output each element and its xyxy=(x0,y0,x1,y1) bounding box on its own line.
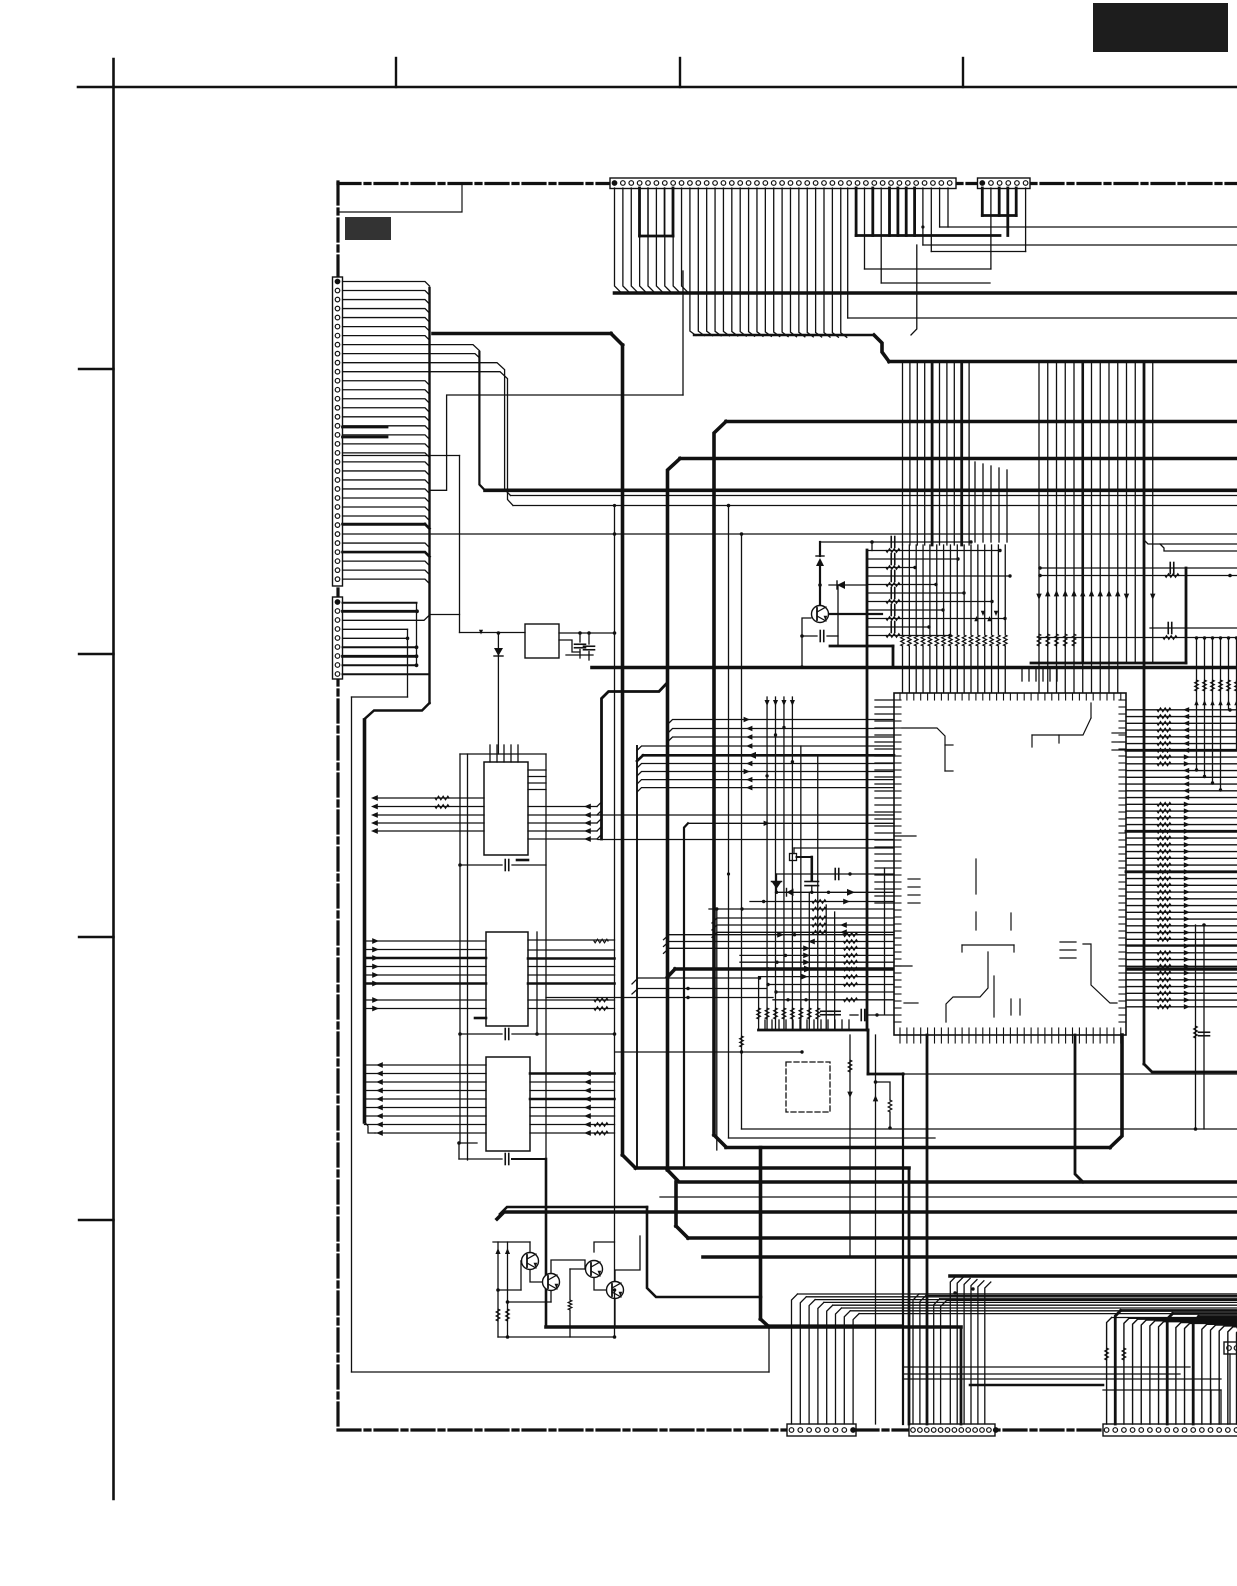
shield box left rail2 xyxy=(467,754,469,1160)
title block (solid) xyxy=(345,217,391,240)
IC U2 right row wires xyxy=(528,802,602,842)
bus wire thick y=235.5 xyxy=(856,234,1000,237)
stub rows left of U10 xyxy=(875,700,894,903)
bus drop to CN bottom-2 xyxy=(908,1168,911,1424)
left border tick 3 xyxy=(79,936,114,938)
signal arrows xyxy=(974,611,998,621)
IC U3 right row wires xyxy=(528,940,615,1009)
IC U2 top-right stubs xyxy=(528,770,546,790)
rail x=416.5 xyxy=(416,603,418,666)
bus wire (thick) y=1238 xyxy=(676,1182,1237,1238)
wire thick CN2 p1 xyxy=(981,188,984,216)
fan riser x=637 xyxy=(636,746,638,1168)
IC U10 internal g xyxy=(894,836,920,1003)
wire thick drop p30 xyxy=(855,188,858,236)
link rows xyxy=(546,976,773,999)
signal wire y=251.5 xyxy=(931,251,1025,253)
wire drop p40 xyxy=(939,188,941,227)
transistor Q4 xyxy=(607,1282,624,1299)
row junctions right xyxy=(1195,708,1232,791)
rail y=1379 xyxy=(903,1378,1221,1380)
wire pin11 xyxy=(343,372,514,506)
IC U10 internal c xyxy=(1112,733,1126,750)
resistor R (u3c) xyxy=(594,1007,608,1011)
wire x=728 xyxy=(728,506,730,1139)
wire x=742 xyxy=(740,532,744,1129)
bus wire thick x=927 xyxy=(926,1035,929,1424)
wire q cluster link xyxy=(498,1335,616,1339)
wire columns into IC top + resistor row xyxy=(901,545,1007,693)
aux wire2 xyxy=(1103,1390,1221,1424)
row y=984.5 xyxy=(766,983,894,987)
wire thick row y=524 xyxy=(343,524,430,529)
wire L2 pin9 xyxy=(343,673,430,675)
wire jog xyxy=(459,1143,477,1159)
wire to regulator xyxy=(460,632,526,634)
left border tick 2 xyxy=(79,653,114,655)
bus corner x=666 xyxy=(668,459,681,1171)
wire drop p38 xyxy=(922,188,924,245)
signal wire y=534 xyxy=(343,533,1237,535)
wire thick drop xyxy=(819,542,821,556)
capacitor C (reg1) xyxy=(575,633,586,658)
bus wire thick x=546 low xyxy=(545,1159,548,1327)
transistor Q1 xyxy=(522,1253,539,1270)
bus wire thick x=1144 xyxy=(1144,362,1237,1073)
wire q-rail a xyxy=(495,1242,500,1337)
bus wire (thick) x=364.5 xyxy=(363,720,367,1122)
bus wire y=335 xyxy=(694,334,874,336)
bus wire (thick) y=333.5 xyxy=(433,332,611,336)
row wires right of U10 xyxy=(1126,707,1237,1009)
bus wire thick y=215.5 xyxy=(982,214,1016,217)
loop wire xyxy=(876,1082,892,1130)
rail x=351.5 xyxy=(351,697,353,1372)
signal arrow xyxy=(479,630,483,635)
signal wire y=1367 xyxy=(903,1366,1190,1368)
signal wire y=283 xyxy=(881,282,990,284)
top border tick 3 xyxy=(962,58,964,87)
bus wire thick x=647 xyxy=(647,1207,761,1297)
wire q2 emit xyxy=(508,1291,552,1302)
wire bus merge CN left-1 tail xyxy=(343,543,430,584)
connector CN aux 2-pin xyxy=(1224,1342,1237,1354)
wire L2 pin5 xyxy=(343,637,410,641)
IC U10 internal f xyxy=(994,976,1020,1017)
board frame top edge xyxy=(338,182,1237,185)
bus corner x712 low xyxy=(714,1135,726,1147)
junction xyxy=(818,583,822,587)
wire reg out2 xyxy=(580,631,616,635)
signal wire y=505.5 xyxy=(513,505,1237,507)
resistor R (u2a) xyxy=(435,796,449,800)
signal wire y=495.5 xyxy=(511,495,1237,497)
bus wire thick x=867 xyxy=(866,550,869,1030)
wire L2 pin6 xyxy=(343,645,419,649)
page number block (solid) xyxy=(1093,3,1228,52)
wire pin9 xyxy=(343,354,480,358)
bus wire (thick) y=421.5 xyxy=(726,420,1237,424)
IC U3 bottom stub xyxy=(475,1017,486,1020)
wire drop p31 xyxy=(864,188,866,269)
diode row y=892 xyxy=(777,889,895,897)
crystal X1 wire xyxy=(794,848,894,854)
bus drop x=961 xyxy=(960,1327,963,1424)
wire tail xyxy=(365,1122,487,1136)
wire x=875 arrow xyxy=(873,1035,878,1424)
connector CN bottom-2 xyxy=(909,1424,998,1436)
resistor R (u2b) xyxy=(435,805,449,809)
wire top rail xyxy=(820,540,874,550)
wire q-top xyxy=(493,1241,530,1243)
capacitor C (shield2) xyxy=(460,1029,546,1040)
wire q4 coll xyxy=(615,1236,640,1281)
resistor R (b3a) xyxy=(1105,1348,1109,1360)
shield box right rail xyxy=(545,754,547,1159)
row fan off x=667 xyxy=(668,717,894,742)
bus wire (thick) y=1212 xyxy=(497,1212,1237,1219)
CN bottom-2 risers right xyxy=(950,1276,991,1424)
bus wire (thick) y=1147.5 xyxy=(726,1146,1110,1150)
IC U10 bottom pin ticks xyxy=(900,1028,1121,1043)
board frame bottom edge xyxy=(338,1428,1237,1431)
IC U3 (box) xyxy=(486,932,528,1026)
wire q1 coll xyxy=(529,1242,531,1253)
diode D3 xyxy=(829,581,867,589)
bus wire thick step xyxy=(874,335,889,362)
board frame left edge xyxy=(336,182,339,1430)
bus wire (thick) y=1168 xyxy=(636,1166,910,1170)
wire columns under y=458 xyxy=(975,462,1007,542)
IC U10 right pin ticks xyxy=(1119,700,1126,1022)
wire x=850 arrow xyxy=(847,1035,852,1257)
zener diode D2 xyxy=(816,556,824,605)
bus corner low xyxy=(623,1155,636,1168)
pin ticks on y=1030 xyxy=(765,1020,849,1030)
wire drop p39 xyxy=(930,188,932,252)
wire L2 pin3 xyxy=(343,615,460,621)
CN bottom-3 risers xyxy=(1107,1311,1237,1425)
connector CN left-2 xyxy=(333,597,343,679)
wire x=615 vertical xyxy=(613,504,616,1290)
row y=992 xyxy=(774,990,894,993)
signal wire y=318 xyxy=(848,317,1237,319)
junction row xyxy=(615,1050,804,1053)
wire q3 base xyxy=(568,1269,585,1337)
bus wire (thick) y=667.5 xyxy=(592,666,1237,670)
bus wire (thick) y=293 xyxy=(615,291,1237,295)
row y=839.5 long xyxy=(598,839,894,841)
bus wire (thick) x=622.5 xyxy=(621,345,625,1155)
row junctions xyxy=(765,726,794,778)
connector CN top-2 xyxy=(978,178,1031,189)
bus wire thick y=1030 xyxy=(759,1029,869,1032)
rail x=769 xyxy=(768,1325,770,1372)
stub wire xyxy=(343,455,460,457)
IC U4 left row wires xyxy=(365,1062,487,1127)
wire thick drop p34 xyxy=(888,188,891,236)
IC U10 internal a xyxy=(902,728,953,771)
wire CN2 p6 xyxy=(1025,188,1027,252)
crystal X1 xyxy=(790,854,813,861)
IC U10 (box) xyxy=(894,693,1126,1035)
junction xyxy=(497,631,501,635)
IC U2 (box) xyxy=(484,762,528,855)
resistor R (u3a) xyxy=(594,939,608,943)
signal wire y=1074 xyxy=(901,1072,1237,1076)
bus wire (thick) y=1182 xyxy=(668,1170,1237,1182)
wire bus merge from CN top-1 pins 1-9 xyxy=(615,188,689,293)
bus wire thick y=1207 xyxy=(500,1207,647,1214)
wire q3-q4 xyxy=(594,1278,606,1290)
top border tick 1 xyxy=(395,58,397,87)
shield box top xyxy=(460,753,546,755)
connector CN left-1 xyxy=(333,277,343,586)
wire CN2 p2 xyxy=(990,188,992,269)
wire L2 pin4 xyxy=(343,628,408,630)
junction xyxy=(921,225,924,228)
IC U10 internal e xyxy=(946,945,1014,1022)
bus wire (thick) y=458.5 xyxy=(680,457,1237,461)
row y=746 xyxy=(637,743,894,750)
wire pin8 xyxy=(343,345,480,351)
frame corner box xyxy=(338,183,462,212)
wire reg gnd xyxy=(566,654,593,656)
bus row thick y=755.3 xyxy=(637,752,894,761)
wire drop p33 xyxy=(880,188,882,283)
left border tick 1 xyxy=(79,368,114,370)
dashed module box xyxy=(786,1062,830,1112)
wire x=716.8 drop xyxy=(716,909,718,1150)
bus wire (thick) y=1257 xyxy=(703,1255,1237,1259)
cap bottom xyxy=(850,1010,894,1021)
bus wire thick y=1074 xyxy=(868,1073,903,1076)
rows y955-969 xyxy=(740,953,894,966)
resistor R (b3b) xyxy=(1122,1348,1126,1360)
bus riser x=479.4 xyxy=(479,352,485,490)
wire column bundle C right xyxy=(1194,636,1237,790)
wire thick drop p35 xyxy=(897,188,900,236)
bus corner xyxy=(611,334,623,346)
connector CN top-1 xyxy=(610,178,956,189)
signal wire y=568 xyxy=(1038,563,1237,574)
wire thick drop p36 xyxy=(905,188,908,236)
connector CN bottom-3 xyxy=(1103,1424,1237,1436)
junction xyxy=(578,631,582,635)
wire thick CN2 p3 xyxy=(998,188,1001,216)
junction xyxy=(800,634,804,669)
row fan x=668 xyxy=(664,933,895,953)
wire y=396 link xyxy=(431,271,683,490)
signal wire y=575.5 xyxy=(1038,574,1237,578)
zener diode D4 xyxy=(772,882,782,895)
row y=976.6 xyxy=(759,974,894,980)
wire bus merge mid pins xyxy=(690,188,847,337)
bus wire thick y=663 xyxy=(1031,662,1186,665)
row fan x=717 xyxy=(712,916,894,937)
wire thick CN2 p5 xyxy=(1015,188,1018,216)
IC U2 top pins xyxy=(490,745,518,762)
bus branch to IC1 xyxy=(602,683,668,839)
bus wire thick x=761 xyxy=(761,1148,770,1328)
capacitor C (q5) xyxy=(802,631,838,642)
wire L2 pin1 xyxy=(343,602,417,604)
wire q1 base xyxy=(498,1261,522,1290)
junction xyxy=(457,1141,461,1145)
signal wire y=269 xyxy=(865,268,991,270)
stub wire thick 2 xyxy=(343,436,388,439)
bus thick y=646 xyxy=(830,646,893,667)
capacitor C (shield3) xyxy=(459,1154,546,1165)
row y=999.8 ext xyxy=(773,998,894,1002)
IC U4 right row wires xyxy=(530,1071,615,1136)
wire q4 emit xyxy=(614,1299,616,1327)
wire bus merge CN left-1 lower xyxy=(343,381,430,530)
connector CN bottom-1 xyxy=(787,1424,856,1436)
wire bus merge CN left-1 upper xyxy=(343,282,430,341)
cap line y=1034 ext xyxy=(546,1032,616,1036)
regulator U (box) xyxy=(525,624,559,658)
wire reg out xyxy=(559,632,580,634)
bus wire (thick) y=490 xyxy=(485,488,1237,492)
stub wire thick 1 xyxy=(343,426,388,429)
signal wire y=1138 xyxy=(729,1137,936,1139)
bus wire thick x=1186 xyxy=(1185,568,1188,663)
bus wire (thick) y=1327 xyxy=(546,1325,961,1329)
bus wire x=684 xyxy=(684,823,688,1168)
wire x614 low xyxy=(613,1288,617,1337)
bus wire thick x=1075 xyxy=(1075,1035,1083,1182)
wire x=884.5 xyxy=(884,868,886,1014)
wire q3 coll xyxy=(594,1242,615,1252)
IC U10 left pin ticks xyxy=(894,700,901,1022)
columns x758-834 xyxy=(757,697,840,1030)
junction xyxy=(953,1287,974,1294)
capacitor C (reg2) xyxy=(584,633,595,660)
signal wire y=227 xyxy=(940,226,1237,228)
bus row arrow xyxy=(766,966,857,973)
junction xyxy=(587,631,591,635)
wire thick drop p32 xyxy=(871,188,874,236)
signal wire y=637.5 xyxy=(1040,636,1237,640)
wire L2 pin8 xyxy=(343,663,419,667)
wire reg aux xyxy=(559,640,580,652)
row y=823 wire xyxy=(688,821,894,826)
shield box right rail2 xyxy=(536,932,538,1034)
bus wire (thick) y=969 xyxy=(675,967,1237,971)
wire column bundle B xyxy=(1036,362,1155,694)
bus corner up xyxy=(1110,1035,1122,1148)
wire L2 pin7 (thick) xyxy=(343,654,419,658)
row y=901.5 xyxy=(727,872,894,904)
IC U10 internal h xyxy=(1060,942,1117,1003)
wire Q5 out xyxy=(829,613,882,615)
wire thick drop p37 xyxy=(913,188,916,236)
wire pair x1195 xyxy=(1194,923,1210,1131)
junction xyxy=(613,532,617,536)
wire q1-q2 xyxy=(530,1270,542,1282)
IC U10 top pin ticks xyxy=(900,693,1121,700)
capacitor/resistor ladder rows xyxy=(867,537,1012,638)
wire link v xyxy=(837,585,839,646)
diode D1 xyxy=(494,633,503,754)
bus corner xyxy=(867,1030,870,1074)
IC U10 internal d xyxy=(976,859,1011,930)
junction xyxy=(458,863,462,867)
bus corner x=712 xyxy=(714,422,726,1136)
resistor R x742 xyxy=(740,1036,744,1047)
resistor R (u4b) xyxy=(594,1131,608,1135)
bus drop x=903 xyxy=(902,1074,904,1424)
wire stub harness xyxy=(640,188,674,236)
pin stubs under y=663 xyxy=(1022,668,1057,681)
wire thick CN2 p4 xyxy=(1006,188,1009,236)
CN bottom-2 risers left xyxy=(913,1294,1237,1424)
wire y=874 xyxy=(777,869,895,882)
signal wire y=245 xyxy=(923,244,1237,246)
row fan off x=637 xyxy=(637,761,894,792)
rail y=1372 xyxy=(352,1371,770,1373)
wire riser x=459.5 xyxy=(459,456,461,633)
IC U4 (box) xyxy=(486,1057,530,1151)
wire q-rail b xyxy=(505,1242,510,1339)
row y=815 long xyxy=(598,814,894,816)
wire drop p41 xyxy=(947,188,949,227)
wire pin10 xyxy=(343,363,511,496)
transistor Q3 xyxy=(586,1261,603,1278)
IC U10 internal b xyxy=(1032,703,1091,747)
wire column bundle A xyxy=(903,362,970,546)
bus riser x=429.5 xyxy=(428,288,430,703)
bus wire thick y=1385 xyxy=(970,1384,1103,1387)
bus wire (thick) y=361.5 xyxy=(889,360,1237,364)
wire riser x=916.8 xyxy=(911,245,917,335)
signal wire y=628 xyxy=(1150,623,1237,634)
wire q2 coll xyxy=(551,1260,585,1273)
transistor Q5 xyxy=(812,606,829,623)
signal wire y=544 jog xyxy=(1144,540,1237,551)
junction xyxy=(727,504,731,508)
top border tick 2 xyxy=(679,58,681,87)
wire pin29 drop xyxy=(847,188,849,318)
page border horizontal rule xyxy=(78,86,1237,89)
wire x=407.5 drop xyxy=(352,629,408,697)
CN bottom-1 risers xyxy=(792,1294,1237,1424)
transistor Q2 xyxy=(543,1274,560,1291)
capacitor C (shield1) xyxy=(460,860,546,871)
row y=909 xyxy=(709,907,894,911)
wire Q5 emitter xyxy=(802,618,811,667)
IC U2 left row wires xyxy=(371,795,484,834)
resistor R (u3b) xyxy=(594,998,608,1002)
signal wire y=1197 xyxy=(660,1196,1237,1198)
row arrows b xyxy=(777,932,815,951)
capacitor C (xtal) xyxy=(805,857,819,892)
bus wire (thick) y=1276 xyxy=(950,1274,1237,1278)
signal wire y=1374 xyxy=(903,1373,1180,1375)
left border tick 4 xyxy=(79,1219,114,1221)
bus corner y=969 xyxy=(668,969,676,977)
IC U2 stub thick xyxy=(517,859,528,862)
shield box left rail xyxy=(459,754,461,1143)
signal wire y=945 xyxy=(1126,944,1237,946)
IC U3 left row wires xyxy=(365,938,487,1011)
aux wire xyxy=(1229,1354,1231,1424)
page border vertical rule xyxy=(112,59,115,1499)
bus corner left xyxy=(365,703,430,719)
junction xyxy=(458,1032,539,1036)
signal wire y=1129 xyxy=(742,1128,1237,1130)
